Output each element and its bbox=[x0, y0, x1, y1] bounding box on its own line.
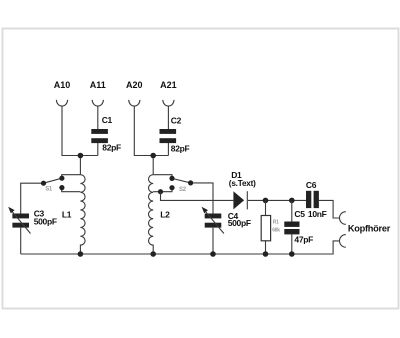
svg-text:C6: C6 bbox=[306, 180, 317, 190]
svg-text:10nF: 10nF bbox=[308, 209, 327, 219]
svg-text:L1: L1 bbox=[62, 209, 72, 219]
svg-text:R1: R1 bbox=[273, 220, 279, 226]
svg-text:82pF: 82pF bbox=[102, 143, 121, 153]
svg-text:S1: S1 bbox=[45, 187, 53, 193]
svg-text:L2: L2 bbox=[160, 209, 170, 219]
svg-text:C5: C5 bbox=[294, 209, 305, 219]
svg-text:68k: 68k bbox=[272, 227, 280, 233]
svg-text:500pF: 500pF bbox=[228, 218, 251, 228]
svg-text:82pF: 82pF bbox=[171, 143, 190, 153]
svg-text:500pF: 500pF bbox=[34, 217, 57, 227]
svg-text:A11: A11 bbox=[90, 80, 106, 90]
svg-text:C2: C2 bbox=[171, 116, 182, 126]
svg-text:S2: S2 bbox=[179, 187, 187, 193]
svg-text:(s.Text): (s.Text) bbox=[229, 179, 256, 188]
svg-text:A20: A20 bbox=[126, 80, 143, 90]
svg-text:C1: C1 bbox=[102, 115, 113, 125]
svg-text:A10: A10 bbox=[54, 80, 71, 90]
svg-text:Kopfhörer: Kopfhörer bbox=[348, 223, 391, 233]
svg-text:47pF: 47pF bbox=[294, 234, 313, 244]
svg-text:A21: A21 bbox=[160, 80, 177, 90]
